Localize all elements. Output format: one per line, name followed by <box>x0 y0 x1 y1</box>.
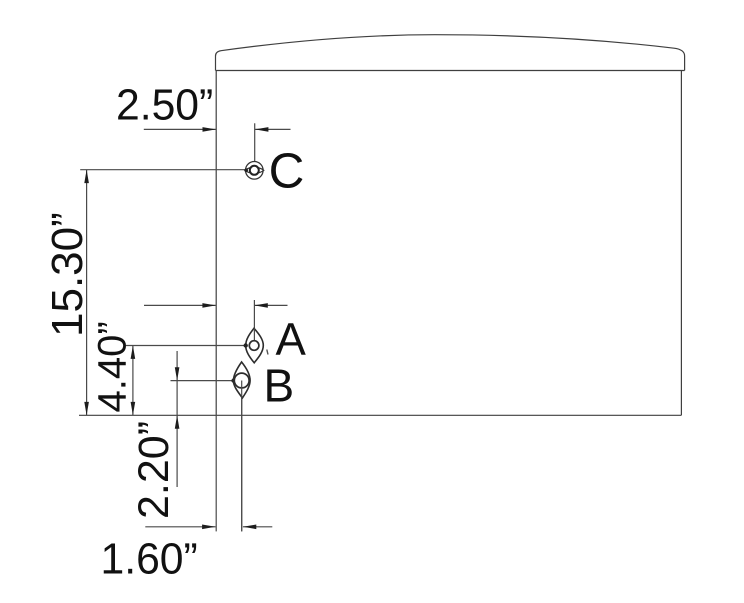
hole C inner circle <box>250 166 259 175</box>
svg-text:4.40”: 4.40” <box>91 321 135 412</box>
svg-text:A: A <box>276 314 307 365</box>
hole A extension line horizontal from 4.40 dim <box>126 345 246 347</box>
hole B extension line horizontal from 2.20 dim <box>171 380 234 382</box>
dim A-offset line right segment <box>254 304 287 306</box>
hole B slot outline <box>233 362 250 398</box>
junction dot hole A left point <box>244 343 248 347</box>
arrowhead A-offset right-pointing at body edge <box>202 303 215 308</box>
svg-text:C: C <box>269 144 305 199</box>
svg-text:15.30”: 15.30” <box>43 212 92 337</box>
arrowhead 1.60 right-pointing at left extension <box>202 525 215 530</box>
arrowhead 15.30 up-pointing <box>84 170 89 183</box>
arrowhead A-offset left-pointing at hole A centerline <box>254 303 267 308</box>
hole A tick mark <box>267 350 268 355</box>
hole B inner circle <box>234 373 249 388</box>
hole A slot outline <box>246 328 264 363</box>
hole A centerline inside slot <box>253 328 255 341</box>
hole B centerline inside slot <box>241 381 243 532</box>
hole B centerline vertical going down to 1.60 dim <box>241 382 243 531</box>
dim A-offset line left segment <box>144 304 216 306</box>
svg-text:2.50”: 2.50” <box>116 81 213 130</box>
dim 2.50 line right segment <box>255 128 291 130</box>
arrowhead 2.50 right-pointing at body edge <box>203 127 216 132</box>
svg-text:2.20”: 2.20” <box>130 421 178 519</box>
enclosure body bottom edge with left extension <box>79 414 681 416</box>
svg-text:B: B <box>264 360 295 412</box>
dim 2.20 vertical line <box>176 351 178 487</box>
enclosure body right edge <box>680 71 682 416</box>
junction dot hole C left point <box>244 169 248 173</box>
hole C extension line horizontal from 15.30 dim <box>80 169 246 171</box>
hole C centerline vertical <box>254 123 256 166</box>
hole A inner circle <box>249 341 259 351</box>
dim 2.50 line left segment <box>144 128 216 130</box>
dim 1.60 line right segment <box>243 526 272 528</box>
dim 4.40 vertical line <box>132 346 134 416</box>
arrowhead 2.20 up-pointing below bottom edge <box>175 415 180 428</box>
arrowhead 2.20 down-pointing above hole B line <box>175 367 180 380</box>
arrowhead 1.60 left-pointing at hole B centerline <box>243 525 256 530</box>
hole C outer circle <box>246 162 264 180</box>
arrowhead 15.30 down-pointing <box>84 402 89 415</box>
enclosure lid bottom edge <box>216 70 685 72</box>
extension line body left edge below bottom <box>215 415 217 531</box>
hole C lens points <box>245 167 264 173</box>
junction dot hole B left point <box>231 378 235 382</box>
svg-text:1.60”: 1.60” <box>101 535 198 584</box>
dim 1.60 line left segment <box>145 526 215 528</box>
enclosure lid <box>216 35 685 71</box>
arrowhead 4.40 down-pointing <box>131 402 136 415</box>
hole A centerline vertical <box>253 300 255 341</box>
enclosure body left edge <box>215 71 217 416</box>
dim 15.30 vertical line <box>86 170 88 416</box>
arrowhead 2.50 left-pointing at hole C centerline <box>255 127 268 132</box>
arrowhead 4.40 up-pointing <box>131 346 136 359</box>
